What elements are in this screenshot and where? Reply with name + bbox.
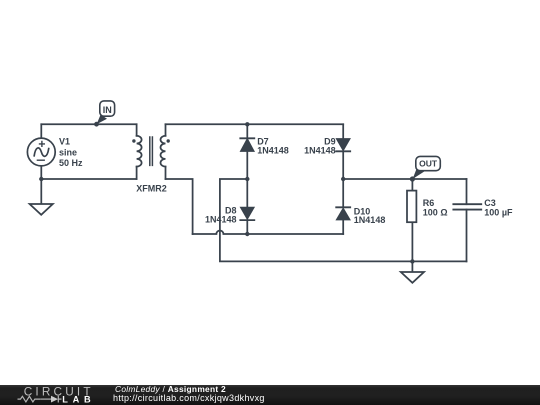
svg-text:XFMR2: XFMR2	[136, 184, 167, 194]
svg-text:http://circuitlab.com/cxkjqw3d: http://circuitlab.com/cxkjqw3dkhvxg	[113, 393, 265, 403]
svg-text:V1: V1	[59, 136, 70, 146]
svg-text:100 µF: 100 µF	[484, 208, 513, 218]
svg-text:IN: IN	[103, 105, 112, 115]
svg-text:1N4148: 1N4148	[205, 214, 237, 224]
svg-text:1N4148: 1N4148	[354, 215, 386, 225]
svg-text:LAB: LAB	[62, 394, 91, 404]
svg-text:1N4148: 1N4148	[257, 146, 289, 156]
svg-text:1N4148: 1N4148	[304, 146, 336, 156]
svg-text:R6: R6	[423, 198, 435, 208]
svg-text:C3: C3	[484, 198, 496, 208]
svg-text:50 Hz: 50 Hz	[59, 158, 83, 168]
svg-text:100 Ω: 100 Ω	[423, 208, 448, 218]
svg-text:OUT: OUT	[419, 159, 438, 169]
svg-text:sine: sine	[59, 147, 77, 157]
